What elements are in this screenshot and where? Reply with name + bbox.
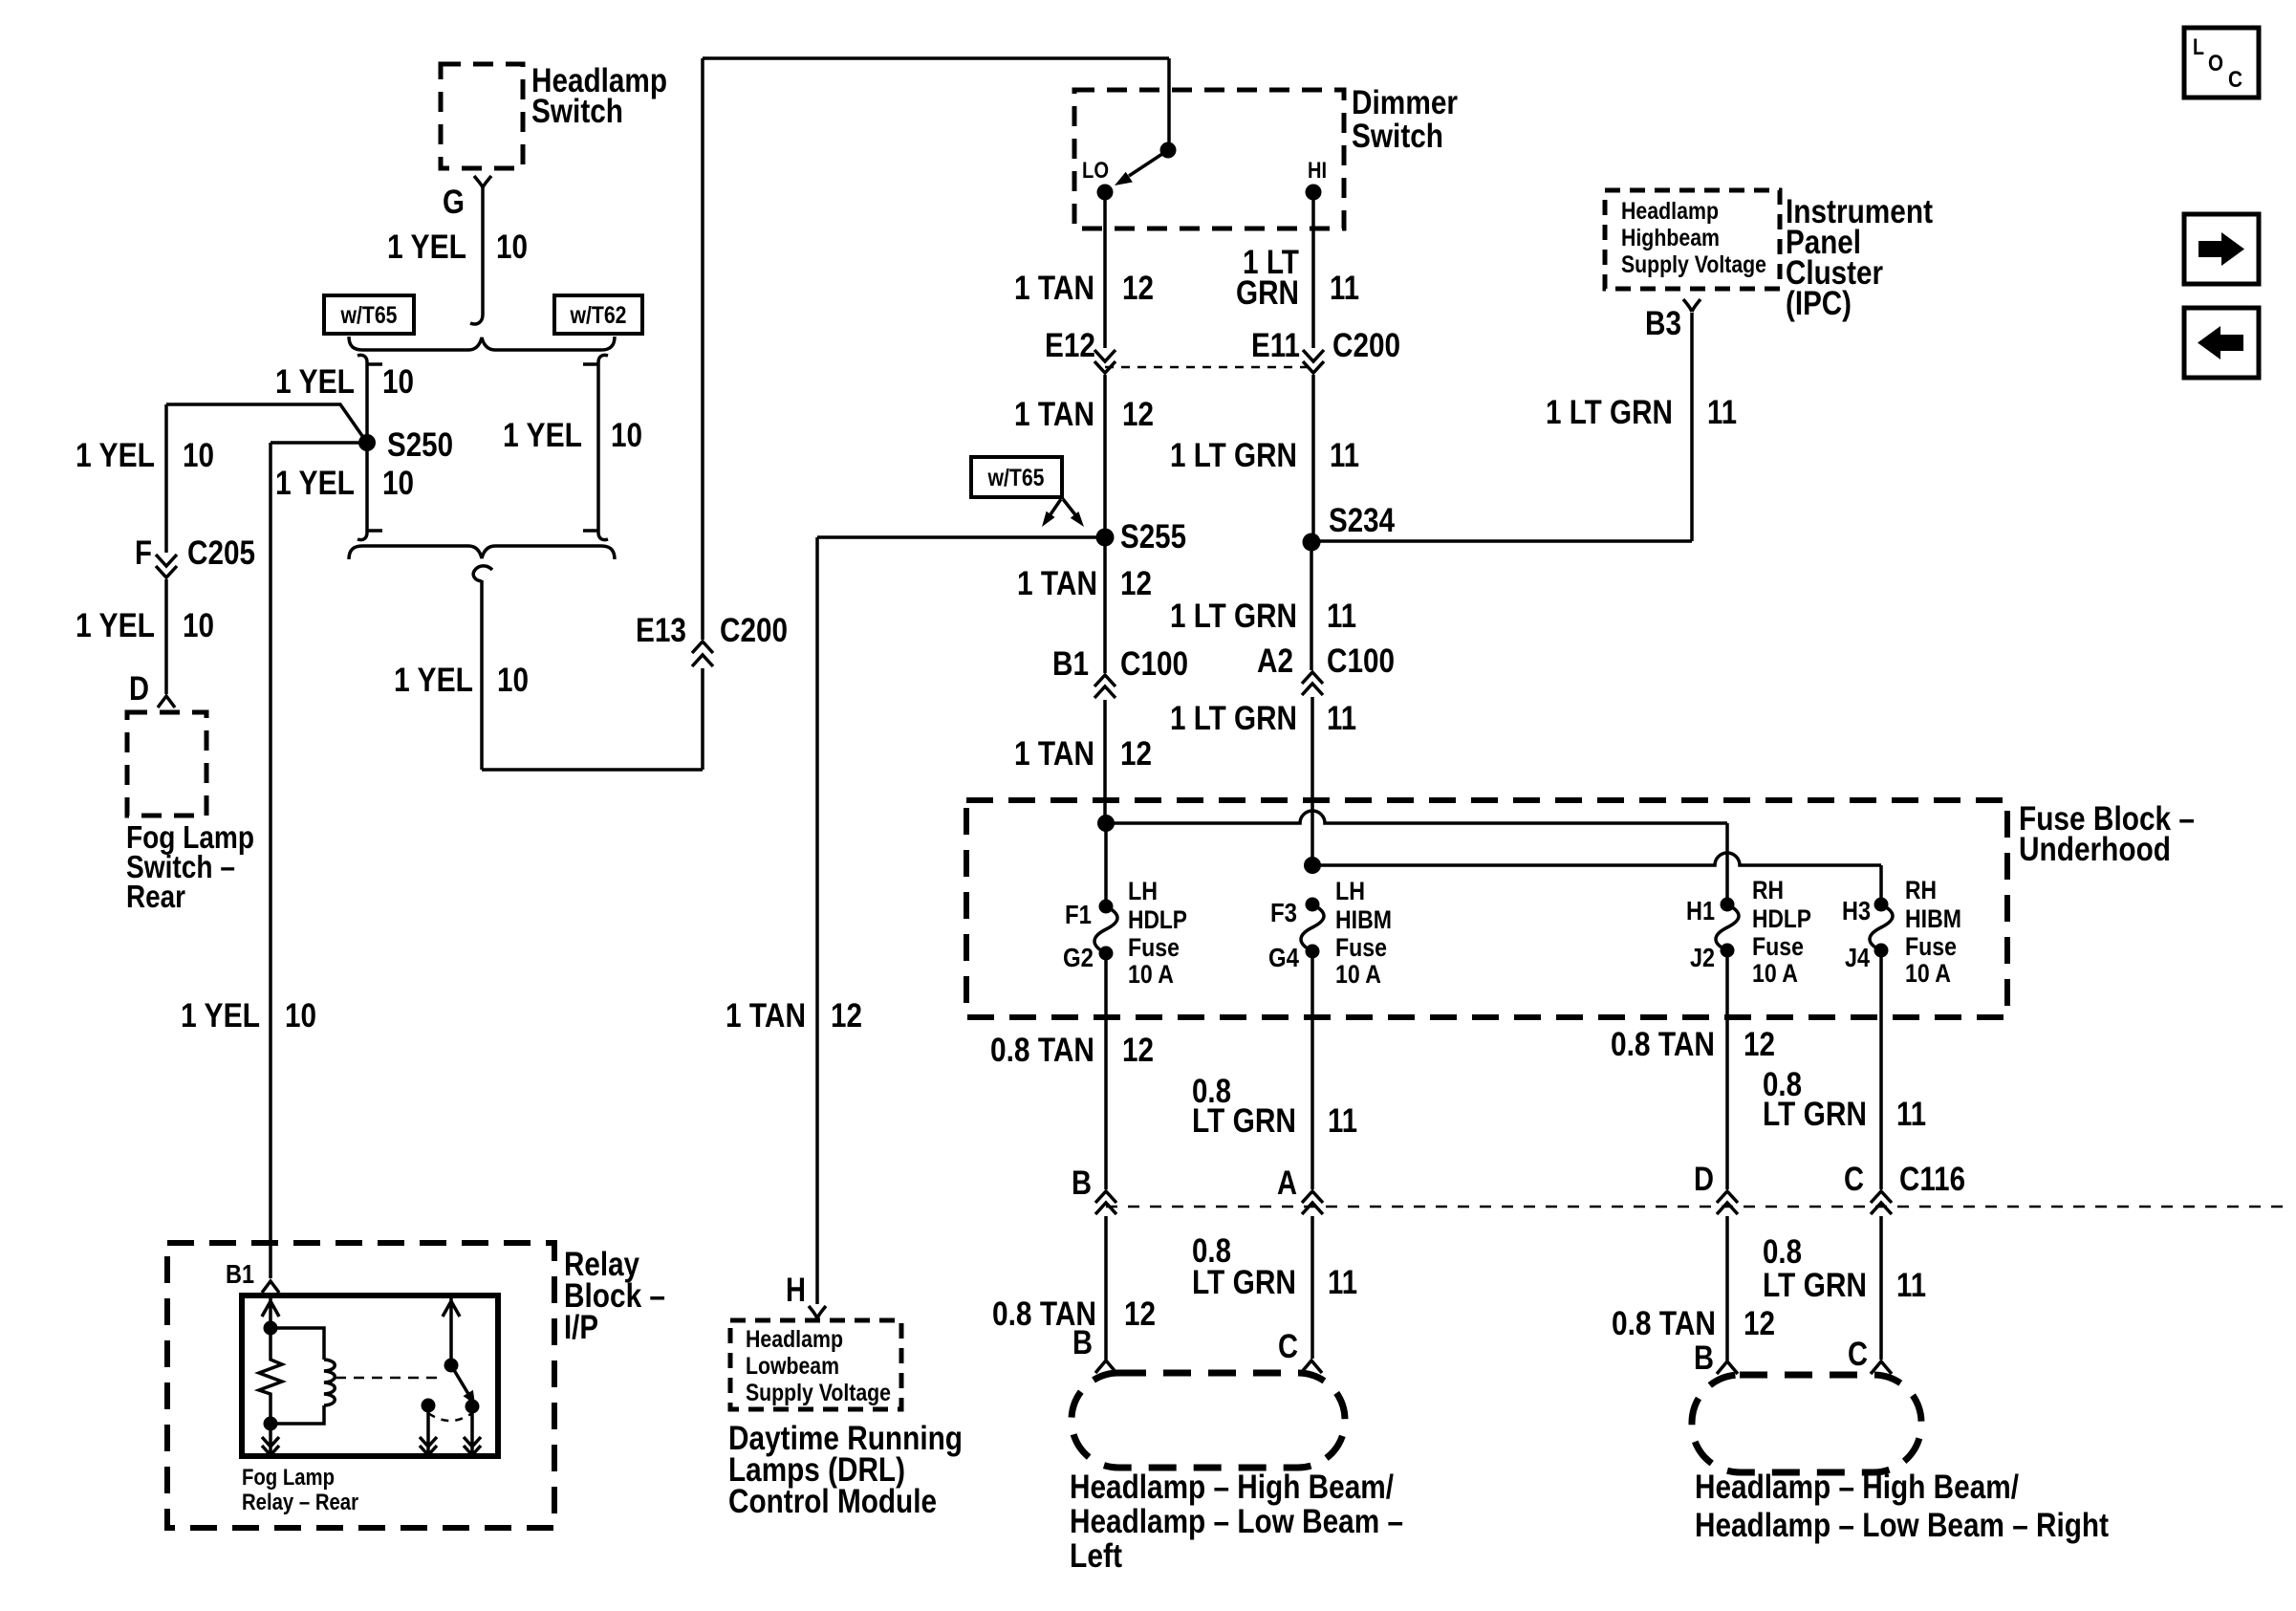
fuse LH HDLP 10A <box>1094 900 1117 961</box>
svg-text:H1: H1 <box>1686 896 1715 925</box>
svg-text:Headlamp: Headlamp <box>1621 198 1719 225</box>
svg-text:w/T62: w/T62 <box>570 302 627 329</box>
option tag w/T65 <box>324 295 414 334</box>
svg-text:G4: G4 <box>1268 943 1299 972</box>
svg-text:C100: C100 <box>1120 645 1188 683</box>
svg-text:1 LT GRN: 1 LT GRN <box>1170 437 1297 474</box>
svg-text:12: 12 <box>1122 1032 1154 1069</box>
svg-text:G2: G2 <box>1063 943 1094 972</box>
svg-text:C100: C100 <box>1327 642 1395 680</box>
coil ground wire with down chevrons <box>262 1424 279 1456</box>
svg-text:Headlamp – High Beam/: Headlamp – High Beam/ <box>1695 1469 2019 1506</box>
svg-text:10: 10 <box>496 229 528 266</box>
wire E11 to S234 (1 LT GRN 11) <box>1311 375 1315 542</box>
wire G4 to C116 A (0.8 LT GRN 11) <box>1310 951 1314 1189</box>
svg-text:S250: S250 <box>387 426 453 464</box>
connector C116 dashed line <box>1106 1206 2285 1208</box>
svg-text:Fog Lamp: Fog Lamp <box>242 1465 335 1491</box>
svg-text:Switch: Switch <box>531 93 623 130</box>
splice S234 <box>1303 533 1321 552</box>
svg-text:B: B <box>1072 1165 1092 1202</box>
svg-text:10: 10 <box>183 607 214 644</box>
svg-text:10: 10 <box>183 437 214 474</box>
svg-text:B: B <box>1072 1324 1093 1361</box>
svg-text:J2: J2 <box>1690 943 1715 972</box>
fog lamp relay - rear (solid box) <box>242 1295 498 1456</box>
splice S250 <box>358 434 376 451</box>
inductor coil L1 <box>324 1360 335 1405</box>
option tag w/T62 <box>554 295 642 334</box>
pin D chevron <box>158 696 175 708</box>
svg-text:C: C <box>2228 67 2242 93</box>
svg-text:0.8 TAN: 0.8 TAN <box>1612 1305 1716 1342</box>
svg-text:S234: S234 <box>1329 502 1395 539</box>
svg-text:F: F <box>135 534 152 572</box>
wire to E13 <box>482 58 1169 770</box>
pin B chevron right lamp <box>1717 1361 1738 1374</box>
wire G2 to C116 B (0.8 TAN 12) <box>1104 953 1108 1189</box>
pin B chevron <box>1095 1361 1116 1373</box>
wire bus to RH HDLP fuse with hop <box>1106 811 1727 904</box>
top splice brace <box>349 337 615 350</box>
svg-text:1 YEL: 1 YEL <box>503 417 582 454</box>
svg-text:1 YEL: 1 YEL <box>387 229 466 266</box>
svg-text:GRN: GRN <box>1236 274 1299 312</box>
svg-text:Underhood: Underhood <box>2019 831 2171 868</box>
svg-text:I/P: I/P <box>564 1309 598 1346</box>
wire merged branch with start curl <box>473 566 492 770</box>
svg-text:12: 12 <box>1120 565 1152 602</box>
node coil top <box>264 1321 278 1336</box>
svg-text:A: A <box>1277 1165 1297 1202</box>
wire S250 diagonal branch to fog lamp switch feed <box>166 404 367 553</box>
svg-text:1 YEL: 1 YEL <box>76 607 155 644</box>
svg-text:H3: H3 <box>1842 896 1871 925</box>
wire F to fog lamp switch <box>164 579 168 694</box>
svg-text:12: 12 <box>1744 1026 1775 1063</box>
svg-text:G: G <box>443 184 465 221</box>
svg-text:1 TAN: 1 TAN <box>1017 565 1097 602</box>
svg-text:12: 12 <box>1120 735 1152 773</box>
svg-text:0.8: 0.8 <box>1763 1233 1802 1271</box>
option tag w/T65 with arrows <box>971 457 1084 527</box>
bottom splice brace <box>349 546 615 559</box>
svg-text:10: 10 <box>382 363 414 401</box>
svg-text:11: 11 <box>1328 1264 1357 1301</box>
svg-text:E11: E11 <box>1251 327 1300 364</box>
relay coil input wire with up arrow <box>262 1298 279 1328</box>
svg-text:11: 11 <box>1707 394 1737 431</box>
wire bus to RH HIBM fuse with hop <box>1312 853 1881 904</box>
svg-text:C205: C205 <box>187 534 255 572</box>
svg-text:HDLP: HDLP <box>1128 905 1187 934</box>
relay coil branch wires <box>271 1328 324 1424</box>
svg-text:D: D <box>1694 1161 1714 1198</box>
wire S255 branch to DRL module <box>817 537 1105 1304</box>
wire C116 A to headlamp left C <box>1310 1216 1314 1359</box>
fuse block underhood (dashed box) <box>966 800 2007 1017</box>
relay block I/P (dashed box) <box>167 1243 554 1528</box>
relay common wire with up arrow <box>443 1298 460 1365</box>
connector E11 chevrons <box>1303 350 1324 373</box>
headlamp highbeam supply voltage (dashed box) <box>1605 190 1780 289</box>
splice S255 <box>1096 529 1115 547</box>
svg-text:LH: LH <box>1335 877 1365 905</box>
resistor (relay suppression) <box>259 1328 282 1424</box>
wire C116 C to headlamp right C <box>1879 1216 1883 1360</box>
svg-text:O: O <box>2208 51 2223 76</box>
svg-text:Fuse: Fuse <box>1905 932 1957 961</box>
svg-text:(IPC): (IPC) <box>1786 285 1852 322</box>
wire into LH HDLP fuse <box>1104 823 1108 906</box>
svg-text:Highbeam: Highbeam <box>1621 225 1720 251</box>
svg-text:Fuse: Fuse <box>1128 933 1180 962</box>
svg-text:0.8 TAN: 0.8 TAN <box>1611 1026 1715 1063</box>
svg-text:S255: S255 <box>1120 518 1186 555</box>
connector C200 dashed line <box>1105 366 1313 369</box>
node contact NC <box>422 1399 436 1413</box>
node feed junction left <box>1097 815 1115 832</box>
connector E12 chevrons <box>1094 350 1116 373</box>
left-arrow legend box <box>2184 308 2259 378</box>
svg-text:B1: B1 <box>226 1259 254 1289</box>
svg-text:C116: C116 <box>1899 1161 1965 1198</box>
wire C100 A2 to fuse block (1 LT GRN 11) <box>1310 697 1314 865</box>
svg-text:12: 12 <box>1122 396 1154 433</box>
svg-text:Dimmer: Dimmer <box>1352 84 1458 121</box>
svg-text:B: B <box>1694 1339 1714 1377</box>
svg-text:10 A: 10 A <box>1752 959 1798 988</box>
wire S255 to C100 B1 <box>1103 537 1107 673</box>
node feed junction right <box>1304 857 1321 874</box>
svg-text:H: H <box>786 1272 806 1309</box>
connector A chevrons <box>1302 1191 1323 1214</box>
svg-text:Headlamp – Low Beam –: Headlamp – Low Beam – <box>1070 1503 1403 1540</box>
headlamp switch (dashed box) <box>441 64 523 168</box>
svg-text:11: 11 <box>1327 700 1356 737</box>
svg-text:Fuse: Fuse <box>1335 933 1387 962</box>
contact throw dashed arc <box>428 1413 472 1421</box>
fog lamp switch - rear (dashed box) <box>127 712 206 816</box>
wire S234 branch to IPC B3 <box>1311 313 1692 541</box>
svg-text:1 TAN: 1 TAN <box>1014 270 1094 307</box>
node LO terminal <box>1097 185 1114 201</box>
svg-text:C: C <box>1848 1336 1868 1373</box>
svg-text:11: 11 <box>1896 1096 1926 1133</box>
pin B3 Y-connector <box>1683 299 1700 312</box>
wire S234 to C100 A2 <box>1310 542 1313 670</box>
svg-text:1 LT GRN: 1 LT GRN <box>1170 700 1297 737</box>
relay actuation dashed link <box>336 1377 442 1380</box>
wire right option branch 1 YEL 10 <box>583 355 608 539</box>
svg-text:1 YEL: 1 YEL <box>275 363 355 401</box>
svg-text:LT GRN: LT GRN <box>1763 1096 1867 1133</box>
connector D chevrons <box>1717 1191 1738 1214</box>
svg-text:10 A: 10 A <box>1335 960 1381 989</box>
svg-text:w/T65: w/T65 <box>987 465 1045 491</box>
dimmer switch arm with arrowhead <box>1129 150 1168 176</box>
svg-text:w/T65: w/T65 <box>340 302 398 329</box>
svg-text:HIBM: HIBM <box>1335 905 1392 934</box>
wire S250 branch to relay block B1 <box>271 443 367 1278</box>
svg-text:10 A: 10 A <box>1128 960 1174 989</box>
svg-text:LO: LO <box>1082 158 1109 184</box>
svg-text:HIBM: HIBM <box>1905 904 1961 933</box>
svg-text:Fuse: Fuse <box>1752 932 1804 961</box>
relay switch arm with arrowhead <box>451 1365 468 1394</box>
wire C100 B1 to fuse block (1 TAN 12) <box>1103 700 1107 823</box>
svg-text:10: 10 <box>497 662 529 699</box>
svg-text:Control Module: Control Module <box>728 1483 937 1520</box>
node contact NO <box>466 1400 480 1414</box>
node dimmer common <box>1160 142 1177 159</box>
connector B chevrons <box>1095 1191 1116 1214</box>
svg-text:RH: RH <box>1752 876 1784 904</box>
svg-text:F3: F3 <box>1270 898 1297 927</box>
svg-text:B3: B3 <box>1645 305 1681 342</box>
svg-text:10: 10 <box>285 997 316 1034</box>
wire HI to E11 (1 LT GRN 11) <box>1311 192 1315 348</box>
svg-text:11: 11 <box>1330 270 1359 307</box>
svg-text:C200: C200 <box>1332 327 1400 364</box>
connector B1 C100 chevrons <box>1094 675 1116 698</box>
fuse RH HDLP 10A <box>1716 898 1739 958</box>
svg-text:11: 11 <box>1330 437 1359 474</box>
svg-text:Left: Left <box>1070 1537 1122 1575</box>
pin H Y-connector <box>809 1306 826 1318</box>
svg-text:Rear: Rear <box>126 879 185 914</box>
node HI terminal <box>1306 185 1322 201</box>
svg-text:12: 12 <box>1124 1295 1156 1333</box>
right-arrow legend box <box>2184 214 2259 284</box>
svg-text:1 YEL: 1 YEL <box>275 465 355 502</box>
svg-text:1 LT GRN: 1 LT GRN <box>1546 394 1673 431</box>
svg-text:Relay – Rear: Relay – Rear <box>242 1490 358 1515</box>
pin G Y-connector <box>474 176 491 187</box>
svg-text:C: C <box>1844 1161 1864 1198</box>
connector C chevrons + label C116 <box>1871 1191 1892 1214</box>
pin B1 chevron <box>262 1281 279 1293</box>
wire C116 D to headlamp right B <box>1725 1216 1729 1361</box>
svg-text:E12: E12 <box>1045 327 1095 364</box>
svg-text:LT GRN: LT GRN <box>1763 1267 1867 1304</box>
svg-text:RH: RH <box>1905 876 1937 904</box>
node switch pivot <box>444 1359 459 1373</box>
svg-text:D: D <box>129 670 149 708</box>
svg-text:C: C <box>1278 1328 1298 1365</box>
svg-text:12: 12 <box>1122 270 1154 307</box>
svg-text:Lowbeam: Lowbeam <box>746 1353 839 1380</box>
wire end curl <box>470 315 483 324</box>
svg-text:LH: LH <box>1128 877 1158 905</box>
wire J2 to C116 D (0.8 TAN 12) <box>1725 950 1729 1189</box>
svg-text:1 LT GRN: 1 LT GRN <box>1170 598 1297 635</box>
connector A2 C100 chevrons <box>1302 672 1323 695</box>
svg-text:1 TAN: 1 TAN <box>1014 396 1094 433</box>
svg-text:1 YEL: 1 YEL <box>394 662 473 699</box>
svg-text:12: 12 <box>831 997 862 1034</box>
svg-text:10: 10 <box>382 465 414 502</box>
wire G to splice brace (1 YEL 10) <box>481 187 485 315</box>
pin C chevron <box>1301 1361 1322 1373</box>
contact NC output wire with down chevrons <box>420 1405 437 1456</box>
svg-text:1 TAN: 1 TAN <box>726 997 806 1034</box>
svg-text:B1: B1 <box>1052 645 1089 683</box>
svg-text:1 YEL: 1 YEL <box>181 997 260 1034</box>
connector F C205 chevrons <box>156 555 177 577</box>
headlamp high/low beam left (dashed stadium) <box>1072 1373 1345 1468</box>
wire E12 to S255 (1 TAN 12) <box>1103 375 1107 537</box>
headlamp high/low beam right (dashed stadium) <box>1692 1375 1921 1472</box>
svg-text:Supply Voltage: Supply Voltage <box>1621 251 1766 278</box>
wire J4 to C116 C (0.8 LT GRN 11) <box>1879 950 1883 1189</box>
svg-text:10: 10 <box>611 417 642 454</box>
wire left option branch 1 YEL 10 <box>357 355 382 539</box>
svg-text:11: 11 <box>1327 598 1356 635</box>
dimmer switch (dashed box) <box>1074 90 1344 229</box>
svg-text:Supply Voltage: Supply Voltage <box>746 1380 891 1406</box>
svg-text:11: 11 <box>1328 1102 1357 1140</box>
fuse LH HIBM 10A <box>1301 898 1324 959</box>
svg-text:J4: J4 <box>1845 943 1870 972</box>
svg-text:LT GRN: LT GRN <box>1192 1264 1296 1301</box>
svg-text:Headlamp: Headlamp <box>746 1326 843 1353</box>
svg-text:1 TAN: 1 TAN <box>1014 735 1094 773</box>
pin C chevron right lamp <box>1871 1361 1892 1374</box>
svg-text:Switch: Switch <box>1352 118 1443 155</box>
wire LO to E12 (1 TAN 12) <box>1103 192 1107 348</box>
svg-text:LT GRN: LT GRN <box>1192 1102 1296 1140</box>
svg-text:L: L <box>2193 34 2204 60</box>
contact NO output wire with down chevrons <box>464 1406 481 1456</box>
svg-text:E13: E13 <box>636 612 686 649</box>
svg-text:11: 11 <box>1896 1267 1926 1304</box>
svg-text:HI: HI <box>1308 158 1327 184</box>
headlamp lowbeam supply voltage (dashed box) <box>730 1320 901 1409</box>
fuse RH HIBM 10A <box>1870 898 1893 958</box>
svg-text:10 A: 10 A <box>1905 959 1951 988</box>
svg-text:F1: F1 <box>1065 900 1092 929</box>
svg-text:1 YEL: 1 YEL <box>76 437 155 474</box>
wire C116 B to headlamp left B <box>1104 1216 1108 1360</box>
LOC legend box <box>2184 28 2259 98</box>
svg-text:C200: C200 <box>720 612 788 649</box>
svg-text:HDLP: HDLP <box>1752 904 1811 933</box>
svg-text:Headlamp – High Beam/: Headlamp – High Beam/ <box>1070 1469 1394 1506</box>
svg-text:Headlamp – Low Beam – Right: Headlamp – Low Beam – Right <box>1695 1507 2109 1544</box>
svg-text:12: 12 <box>1744 1305 1775 1342</box>
node coil bottom <box>264 1417 278 1431</box>
svg-text:A2: A2 <box>1257 642 1293 680</box>
connector E13 C200 chevrons <box>692 642 713 666</box>
svg-text:0.8 TAN: 0.8 TAN <box>990 1032 1094 1069</box>
